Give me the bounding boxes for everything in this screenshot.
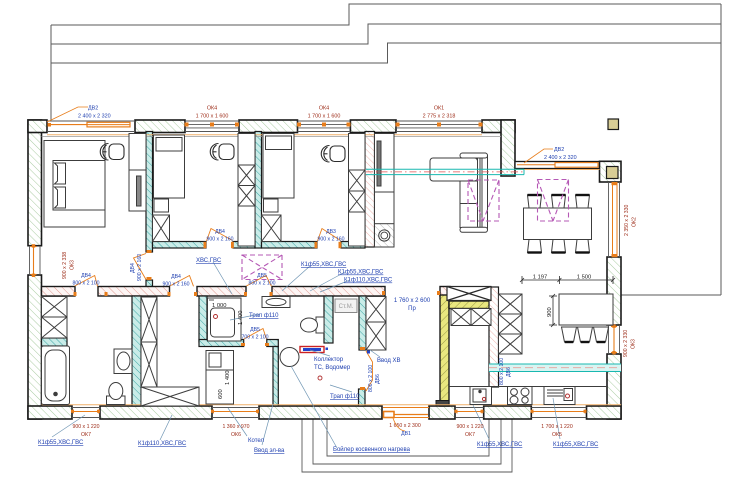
window OK3 left orange dimension xyxy=(31,244,37,277)
corridor teal wall segment 4 xyxy=(341,242,365,249)
bedroom2 nightstand xyxy=(154,199,169,212)
svg-text:900 x 1 220: 900 x 1 220 xyxy=(72,424,99,430)
corridor teal wall segment 3 xyxy=(262,242,318,249)
roof outline left vertical xyxy=(50,25,52,120)
kitchen top X cabinet xyxy=(447,287,491,301)
exterior wall left upper xyxy=(28,120,42,246)
teal shelf wall above bathtub xyxy=(42,338,68,346)
sliding door DV2 top-right orange leaf xyxy=(517,163,598,168)
svg-text:ДВ3: ДВ3 xyxy=(326,229,336,235)
blue rotated door label DV6 pantry xyxy=(368,365,381,392)
svg-text:Трап ф110: Трап ф110 xyxy=(330,394,360,400)
master bed pillow 2 xyxy=(55,187,66,208)
sofa back column xyxy=(478,153,488,231)
svg-text:2 350 x 2 330: 2 350 x 2 330 xyxy=(624,204,630,236)
gray inner face line under top wall xyxy=(42,136,502,138)
window OK6 bottom frame and dim xyxy=(212,408,259,418)
svg-text:800 x 2 100: 800 x 2 100 xyxy=(248,281,275,287)
svg-text:ОК6: ОК6 xyxy=(231,432,241,438)
svg-text:ОК2: ОК2 xyxy=(632,217,638,227)
svg-text:800 x 2 100: 800 x 2 100 xyxy=(368,365,374,392)
blue text DV2 top-right label xyxy=(544,147,577,161)
teal wall pantry lower at entrance xyxy=(359,389,366,406)
exterior bottom wall segment 3 xyxy=(259,406,382,419)
svg-text:К1ф55,ХВС,ГВС: К1ф55,ХВС,ГВС xyxy=(301,262,347,268)
door leader shower room DV4 xyxy=(170,276,194,287)
window OK2 right wall frame xyxy=(609,182,620,257)
svg-text:Ввод эл-ва: Ввод эл-ва xyxy=(254,448,285,454)
window frame lines door DV2 top-left opening xyxy=(47,121,135,132)
porch steps at entrance xyxy=(302,419,512,472)
washer niche hatched xyxy=(375,224,395,247)
window OK4-2 orange posts xyxy=(297,123,351,127)
heating pipes band kitchen xyxy=(489,364,621,372)
exterior bottom wall segment 5 xyxy=(484,406,532,419)
heating pipes band living room xyxy=(366,169,524,174)
svg-text:Пр: Пр xyxy=(408,306,416,312)
kitchen bar counter xyxy=(559,294,613,325)
svg-text:ТС, Водомер: ТС, Водомер xyxy=(314,365,351,371)
svg-text:1 760 x 2 600: 1 760 x 2 600 xyxy=(394,298,431,304)
exterior right wall upper segment xyxy=(607,257,621,325)
red text OK1 label xyxy=(423,106,456,120)
bedroom3 bed xyxy=(263,134,294,199)
dining chair top 3 xyxy=(576,195,590,208)
window OK1 orange posts xyxy=(396,123,483,127)
shower tray xyxy=(208,298,242,341)
window OK3 right orange dimension xyxy=(611,325,617,355)
svg-text:ХВС,ГВС: ХВС,ГВС xyxy=(196,258,222,264)
orange corner marks at pink wall ends xyxy=(74,242,441,390)
bedroom2 chair xyxy=(210,144,234,161)
entrance door DV1 threshold xyxy=(383,408,429,418)
pink wall cap over kitchen wall xyxy=(440,287,450,297)
svg-text:ДВ4: ДВ4 xyxy=(81,273,91,279)
svg-text:600: 600 xyxy=(218,389,224,399)
dark base block under yellow wall xyxy=(436,401,449,407)
hall floor drain xyxy=(318,376,322,380)
window OK7-2 bottom frame and dim xyxy=(455,408,483,418)
bedroom3 wardrobe column with X xyxy=(349,134,366,247)
red text OK4-1 label xyxy=(196,106,229,120)
sofa horizontal seat xyxy=(430,158,478,181)
exterior bottom wall segment 4 xyxy=(429,406,455,419)
bedroom3 chair xyxy=(321,146,345,163)
exterior wall left lower xyxy=(28,275,42,419)
bedroom2 bed xyxy=(154,135,185,198)
teal horizontal wall under shower room left xyxy=(199,340,244,347)
red rotated text OK3 left wall xyxy=(62,252,76,279)
dining chair bottom 2 xyxy=(552,240,566,253)
bedroom2 wardrobe column with X xyxy=(238,134,255,247)
window OK2 orange dimension xyxy=(612,182,618,257)
bottom wall orange sill line xyxy=(42,404,622,406)
window OK3 left wall frame xyxy=(30,246,41,275)
bar dimension line 1197 / 1500 xyxy=(520,276,615,284)
red rotated text OK3 right wall xyxy=(623,330,637,357)
blue rotated door label DV4 master xyxy=(130,254,143,281)
roof outline right vertical xyxy=(720,4,722,295)
blue door label DV4 shower xyxy=(162,274,189,288)
exterior top wall segment 3 xyxy=(239,120,298,133)
washing machine circle xyxy=(379,230,390,241)
window OK1 frame xyxy=(396,121,482,132)
exterior top wall segment 4 xyxy=(350,120,396,133)
sliding door DV2 top-left orange leaf xyxy=(48,122,131,127)
svg-text:ОК1: ОК1 xyxy=(434,106,444,112)
svg-text:900 x 2 160: 900 x 2 160 xyxy=(137,254,143,281)
svg-text:К1ф110,ХВС,ГВС: К1ф110,ХВС,ГВС xyxy=(138,441,187,447)
roof outline bottom edge xyxy=(621,294,721,296)
bathroom wardrobe X xyxy=(42,297,68,339)
red text OK7-1 bottom xyxy=(72,424,99,438)
kitchen wall cabinets X pair xyxy=(451,309,491,326)
sofa top cap xyxy=(460,153,488,158)
svg-text:ОК7: ОК7 xyxy=(81,432,91,438)
orange sill line right terrace xyxy=(515,169,600,171)
svg-text:800 x 2 100: 800 x 2 100 xyxy=(72,281,99,287)
shower dimension 1000 tick xyxy=(209,299,214,301)
svg-text:К1ф55,ХВС,ГВС: К1ф55,ХВС,ГВС xyxy=(477,442,523,448)
svg-text:ДВ2: ДВ2 xyxy=(88,106,98,112)
door leader bedroom3 DV3 xyxy=(318,229,341,242)
window OK4-1 frame xyxy=(185,121,239,132)
interior teal partition bedroom1/bedroom2 xyxy=(146,132,153,253)
svg-text:Ввод ХВ: Ввод ХВ xyxy=(377,358,401,364)
svg-text:1 700 x 1 220: 1 700 x 1 220 xyxy=(541,424,573,430)
orange leader DV2 top-left xyxy=(47,107,88,122)
master bedroom chair xyxy=(100,144,124,161)
blue text opening Pr xyxy=(394,298,431,312)
svg-text:ДВ4: ДВ4 xyxy=(215,229,225,235)
teal wall bathroom/closet divider xyxy=(132,296,141,406)
blue door label DV4 bathroom xyxy=(72,273,99,287)
svg-text:Трап ф110: Трап ф110 xyxy=(249,313,279,319)
dining chair bottom 1 xyxy=(528,240,542,253)
svg-text:Коллектор: Коллектор xyxy=(314,357,344,363)
sofa bottom cap xyxy=(460,227,488,232)
boiler room equipment xyxy=(206,351,234,405)
blue door label DV5 boiler xyxy=(241,327,268,341)
svg-text:1 650 x 2 300: 1 650 x 2 300 xyxy=(389,423,421,429)
bathroom toilet xyxy=(107,383,126,405)
exterior top wall segment 5 xyxy=(482,120,515,133)
kitchen sink unit xyxy=(470,387,492,405)
washing machine position CtM box xyxy=(335,299,357,313)
red text OK5 bottom xyxy=(541,424,573,438)
master bed platform xyxy=(44,141,105,228)
teal wall WC right xyxy=(324,296,333,343)
planned wardrobe dashed sofa area xyxy=(468,180,499,221)
svg-text:700 x 2 100: 700 x 2 100 xyxy=(241,335,268,341)
door leader master bedroom DV4 xyxy=(134,254,147,280)
svg-text:ОК5: ОК5 xyxy=(552,432,562,438)
svg-text:ОК3: ОК3 xyxy=(631,339,637,349)
door leader corridor DV5 xyxy=(246,276,271,287)
pink corridor wall segment 1 xyxy=(42,287,76,297)
master bed pillow 1 xyxy=(55,163,66,184)
red text DV1 bottom entrance xyxy=(389,423,421,437)
red vent duct kitchen xyxy=(489,287,499,387)
master bedroom wardrobe strip xyxy=(129,134,146,212)
teal vertical wall boiler room right xyxy=(273,347,278,407)
closet X column xyxy=(141,297,157,387)
svg-text:ДВ5: ДВ5 xyxy=(257,273,267,279)
dining chair bottom 3 xyxy=(576,240,590,253)
bathtub xyxy=(42,346,70,405)
svg-text:ДВ6: ДВ6 xyxy=(506,367,512,377)
svg-text:Ст.М.: Ст.М. xyxy=(339,304,354,310)
svg-text:900 x 2 160: 900 x 2 160 xyxy=(206,237,233,243)
svg-text:800 x 2 100: 800 x 2 100 xyxy=(499,358,505,385)
bar stool 2 xyxy=(578,327,593,342)
wc toilet xyxy=(301,317,325,333)
svg-text:2 775 x 2 318: 2 775 x 2 318 xyxy=(423,114,456,120)
svg-text:1 360 x 970: 1 360 x 970 xyxy=(222,424,249,430)
orange sill dimension line under top wall xyxy=(47,134,482,136)
svg-text:Котел: Котел xyxy=(248,438,265,444)
svg-text:ДВ4: ДВ4 xyxy=(130,263,136,273)
exterior bottom wall segment 2 xyxy=(100,406,212,419)
sofa vertical seat xyxy=(460,181,478,228)
window OK4-1 orange posts xyxy=(185,123,240,127)
svg-text:ОК4: ОК4 xyxy=(319,106,329,112)
kitchen tall cabinet column X xyxy=(499,294,523,354)
closet bottom X box xyxy=(141,387,199,406)
kitchen dishwasher xyxy=(544,387,575,405)
roof outline line 1 xyxy=(51,4,721,25)
dining table xyxy=(524,208,592,240)
corridor teal wall segment 2 xyxy=(233,242,255,249)
free-standing tan porch column top xyxy=(608,119,619,130)
bar dimension 900 vertical xyxy=(549,294,557,327)
red text OK4-2 label xyxy=(308,106,341,120)
upper-right thin wall with sliding door DV2 xyxy=(515,162,600,169)
svg-text:ДВ5: ДВ5 xyxy=(250,327,260,333)
yellow kitchen wall horizontal top xyxy=(449,301,491,309)
corridor teal wall segment 1 xyxy=(153,242,207,249)
corner pillar block top-right xyxy=(600,161,622,182)
blue door label DV4 bedroom2 xyxy=(206,229,233,243)
exterior top wall segment 1 xyxy=(28,120,47,133)
svg-text:Бойлер косвенного нагрева: Бойлер косвенного нагрева xyxy=(333,446,411,453)
bar stool 1 xyxy=(562,327,577,342)
bedroom3 lower wardrobe X xyxy=(262,215,282,242)
red text OK7-2 bottom xyxy=(456,424,483,438)
bedroom2 lower wardrobe X xyxy=(153,215,170,242)
svg-text:К1ф55,ХВС,ГВС: К1ф55,ХВС,ГВС xyxy=(38,440,84,446)
blue text DV2 top-left label xyxy=(78,106,111,120)
svg-text:ДВ1: ДВ1 xyxy=(401,431,411,437)
blue text kollektor xyxy=(314,357,351,371)
svg-text:1 400: 1 400 xyxy=(238,310,244,325)
svg-text:2 400 x 2 320: 2 400 x 2 320 xyxy=(78,114,111,120)
window OK4-2 frame xyxy=(298,121,351,132)
planned opening dashed box corridor DV5 xyxy=(242,255,282,280)
svg-text:1 197: 1 197 xyxy=(533,275,548,281)
svg-text:900 x 2 338: 900 x 2 338 xyxy=(62,252,68,279)
teal wall pantry upper xyxy=(359,296,366,350)
exterior step wall top-right xyxy=(501,120,515,176)
door leader bedroom2 DV4 xyxy=(207,229,233,242)
interior teal partition bedroom2/bedroom3 xyxy=(255,132,262,249)
bar stool 3 xyxy=(594,327,609,342)
svg-text:900 x 2 330: 900 x 2 330 xyxy=(623,330,629,357)
teal horizontal wall under shower room right xyxy=(267,340,279,347)
kitchen stove xyxy=(508,387,533,405)
blue door label DV5 corridor xyxy=(248,273,275,287)
door leader bathroom DV4 xyxy=(75,276,98,287)
exterior top wall segment 2 xyxy=(135,120,185,133)
exterior bottom wall segment 6 xyxy=(587,406,622,419)
svg-text:ОК4: ОК4 xyxy=(207,106,217,112)
svg-text:1 700 x 1 600: 1 700 x 1 600 xyxy=(308,114,341,120)
svg-text:ДВ6: ДВ6 xyxy=(375,374,381,384)
hall storage column next to vent wall xyxy=(375,134,395,248)
blue inlet valve mark xyxy=(367,351,370,354)
hall wardrobe X column xyxy=(366,297,386,351)
svg-text:900: 900 xyxy=(547,307,553,317)
svg-text:1 700 x 1 600: 1 700 x 1 600 xyxy=(196,114,229,120)
dining chair top 2 xyxy=(552,195,566,208)
svg-text:К1ф55,ХВС,ГВС: К1ф55,ХВС,ГВС xyxy=(338,270,384,276)
roof outline line 3 xyxy=(51,43,721,63)
svg-text:ОК3: ОК3 xyxy=(70,260,76,270)
red text OK6 bottom xyxy=(222,424,249,438)
door leader pantry DV6 xyxy=(366,351,373,391)
bathroom sink xyxy=(114,349,132,374)
orange leader DV1 xyxy=(393,418,405,431)
exterior bottom wall segment 1 xyxy=(28,406,72,419)
pink corridor wall segment 3 xyxy=(197,287,246,297)
bedroom3 nightstand xyxy=(264,199,279,212)
dining chair top 1 xyxy=(528,195,542,208)
kitchen counter edge xyxy=(449,386,607,388)
svg-text:К1ф110,ХВС,ГВС: К1ф110,ХВС,ГВС xyxy=(344,278,393,284)
pink corridor wall segment 2 xyxy=(98,287,170,297)
svg-text:ДВ4: ДВ4 xyxy=(171,274,181,280)
pink corridor wall segment 4 xyxy=(272,287,385,297)
collector and water meter unit xyxy=(300,347,328,353)
orange leader DV2 top-right xyxy=(524,149,553,163)
planned wardrobe dashed dining area xyxy=(538,180,569,222)
yellow kitchen wall vertical xyxy=(440,295,449,406)
svg-text:900 x 2 160: 900 x 2 160 xyxy=(317,237,344,243)
interior vent wall right of bedroom3 xyxy=(365,132,375,248)
svg-text:1 400: 1 400 xyxy=(225,370,231,385)
teal wall closet/shower divider xyxy=(199,296,207,342)
window OK3 right wall frame xyxy=(609,325,620,354)
svg-text:ОК7: ОК7 xyxy=(465,432,475,438)
svg-text:ДВ2: ДВ2 xyxy=(554,147,564,153)
window OK5 bottom frame and dim xyxy=(531,408,586,418)
svg-text:2 400 x 2 320: 2 400 x 2 320 xyxy=(544,155,577,161)
svg-text:К1ф55,ХВС,ГВС: К1ф55,ХВС,ГВС xyxy=(553,442,599,448)
wc sink xyxy=(262,297,290,308)
interior teal stub below master door xyxy=(146,280,153,296)
exterior right wall lower segment xyxy=(607,354,621,419)
svg-text:1 500: 1 500 xyxy=(577,275,592,281)
roof outline line 2 xyxy=(51,24,721,44)
blue rotated door label DV6 kitchen side xyxy=(499,358,512,385)
leader lines thin blue-gray xyxy=(52,262,560,448)
door leader boiler room DV5 xyxy=(244,329,267,340)
svg-text:1 000: 1 000 xyxy=(212,303,227,309)
tan column inside corner block xyxy=(607,167,619,179)
window OK7-1 bottom frame and dim xyxy=(72,408,100,418)
svg-text:900 x 1 220: 900 x 1 220 xyxy=(456,424,483,430)
boiler (indirect water heater) circle xyxy=(280,348,299,367)
svg-text:900 x 2 160: 900 x 2 160 xyxy=(162,282,189,288)
red rotated text OK2 right wall xyxy=(624,204,638,236)
blue door label DV3 bedroom3 xyxy=(317,229,344,243)
